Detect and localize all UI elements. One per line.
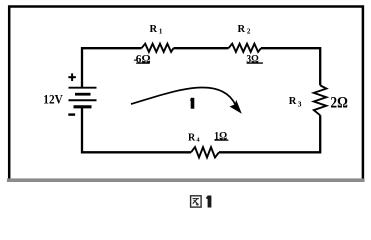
svg-text:12V: 12V: [43, 92, 63, 107]
label I: [190, 98, 194, 109]
resistor R3: [314, 85, 327, 115]
svg-text:2Ω: 2Ω: [330, 95, 348, 112]
wire R3 to bottom-right corner to R4: [219, 115, 320, 152]
battery plus sign: [68, 73, 76, 81]
current arrowhead: [231, 102, 241, 113]
wire R1 to R2: [174, 47, 229, 49]
caption figure 1 glyph tu: [191, 196, 202, 207]
wire R4 to bottom-left corner up to battery negative: [82, 107, 191, 153]
caption figure number 1: [207, 196, 210, 208]
wire battery positive to R1: [82, 48, 142, 87]
resistor R1: [142, 44, 174, 52]
battery minus sign: [68, 113, 75, 115]
battery B1 12V: [69, 88, 97, 107]
resistor R4: [191, 147, 219, 157]
resistor R2: [229, 44, 262, 52]
wire R2 to top-right corner down to R3: [261, 48, 320, 85]
current arrow I: [131, 88, 236, 105]
